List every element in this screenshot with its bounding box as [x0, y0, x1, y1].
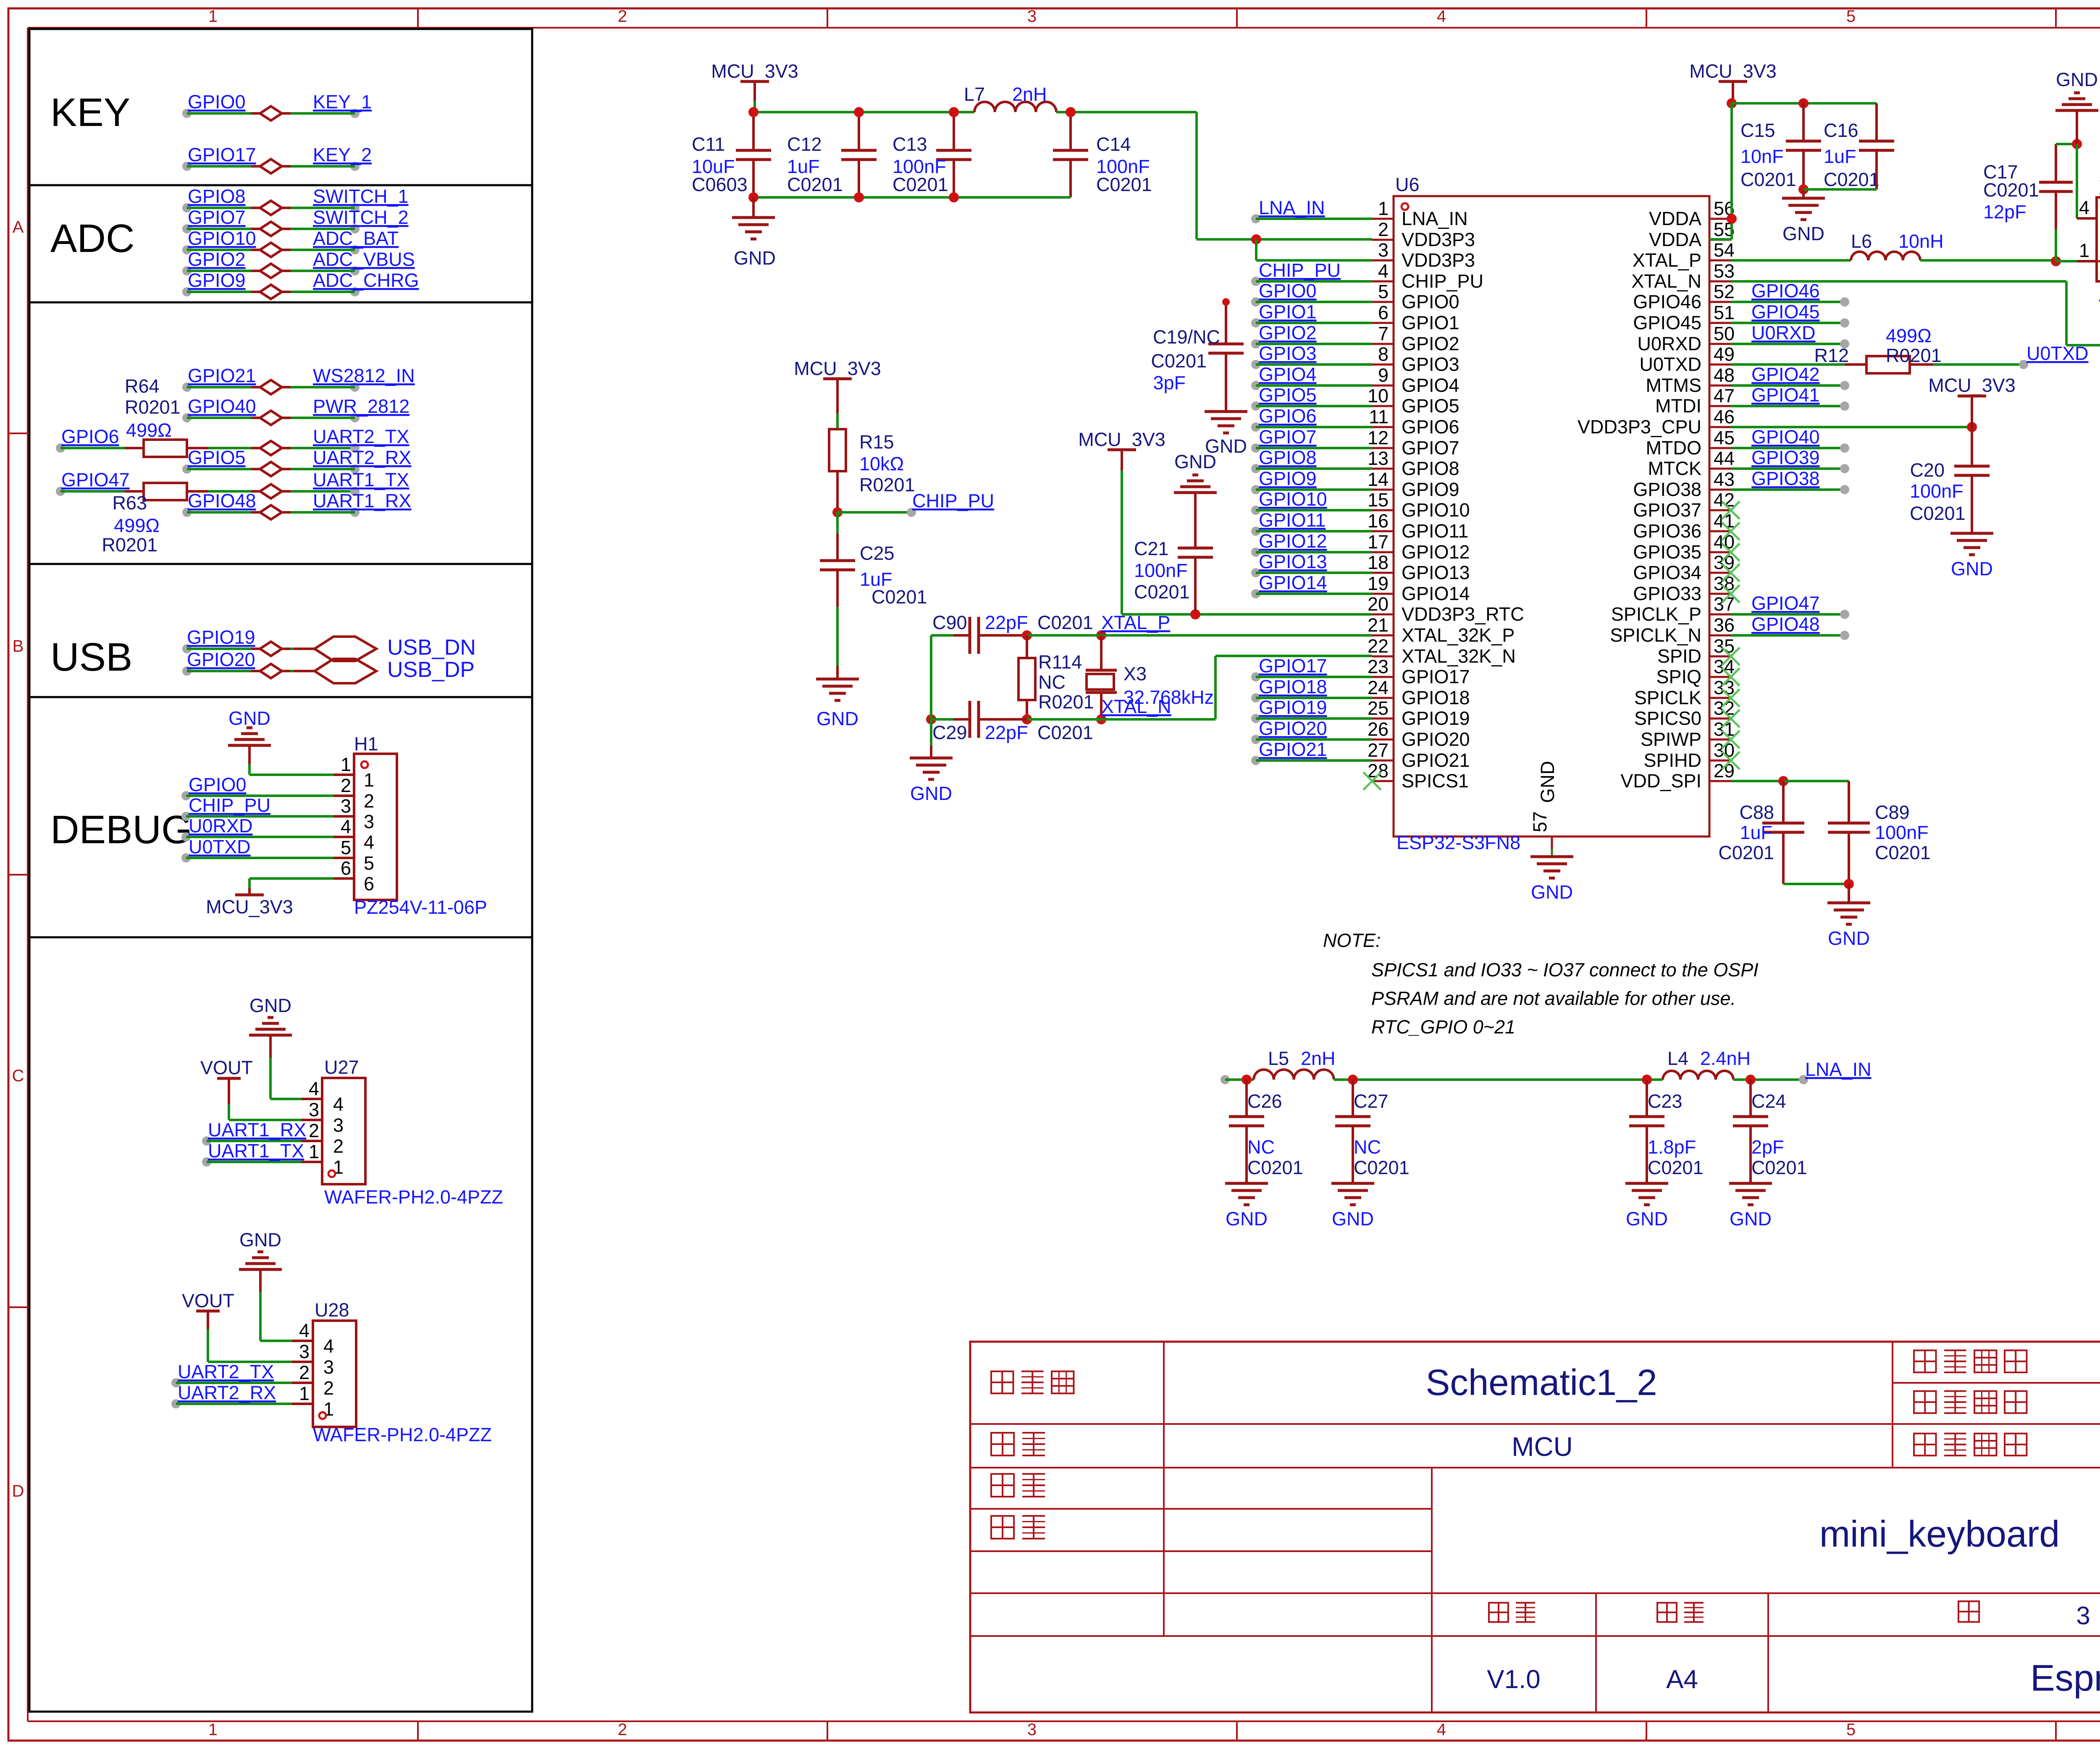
svg-text:VDD3P3: VDD3P3 — [1402, 249, 1475, 271]
svg-text:LNA_IN: LNA_IN — [1805, 1059, 1872, 1080]
svg-text:NC: NC — [1247, 1136, 1275, 1158]
svg-text:C26: C26 — [1247, 1091, 1282, 1112]
svg-text:USB_DN: USB_DN — [387, 635, 476, 660]
svg-text:10nH: 10nH — [1898, 231, 1944, 252]
svg-text:C15: C15 — [1740, 120, 1775, 141]
svg-text:MTDO: MTDO — [1646, 437, 1701, 459]
svg-text:C27: C27 — [1354, 1091, 1389, 1112]
svg-text:mini_keyboard: mini_keyboard — [1819, 1513, 2060, 1555]
svg-text:GND: GND — [228, 708, 270, 729]
svg-text:C23: C23 — [1648, 1091, 1683, 1112]
svg-text:499Ω: 499Ω — [1886, 325, 1932, 346]
svg-text:XTAL_N: XTAL_N — [1101, 696, 1171, 717]
svg-text:GND: GND — [816, 708, 858, 729]
svg-text:3: 3 — [364, 811, 374, 832]
svg-text:100nF: 100nF — [1134, 560, 1188, 581]
svg-text:MCU_3V3: MCU_3V3 — [1928, 375, 2016, 396]
svg-text:PSRAM and are not available fo: PSRAM and are not available for other us… — [1371, 988, 1736, 1009]
svg-text:GPIO17: GPIO17 — [188, 144, 256, 165]
svg-text:9: 9 — [1378, 364, 1389, 386]
svg-text:2: 2 — [341, 775, 351, 796]
svg-text:VDDA: VDDA — [1649, 229, 1701, 250]
svg-text:V1.0: V1.0 — [1487, 1665, 1541, 1694]
svg-text:R0201: R0201 — [1038, 691, 1094, 713]
svg-text:GND: GND — [249, 995, 291, 1016]
svg-text:LNA_IN: LNA_IN — [1402, 208, 1468, 229]
svg-text:GPIO39: GPIO39 — [1751, 447, 1820, 468]
svg-text:U27: U27 — [324, 1057, 359, 1078]
svg-text:1: 1 — [1378, 198, 1389, 219]
svg-text:XTAL_P: XTAL_P — [1101, 612, 1170, 633]
svg-text:4: 4 — [1437, 7, 1446, 26]
svg-text:GND: GND — [239, 1229, 281, 1251]
svg-text:1: 1 — [2079, 240, 2089, 261]
svg-text:22: 22 — [1368, 635, 1389, 657]
svg-text:GPIO20: GPIO20 — [1402, 729, 1470, 750]
svg-text:GPIO46: GPIO46 — [1633, 291, 1701, 312]
svg-text:2: 2 — [1378, 219, 1389, 240]
svg-text:C90: C90 — [932, 612, 967, 633]
svg-text:GPIO37: GPIO37 — [1633, 499, 1701, 521]
svg-text:GPIO47: GPIO47 — [61, 469, 130, 490]
svg-text:GPIO45: GPIO45 — [1633, 312, 1701, 333]
svg-text:GPIO14: GPIO14 — [1259, 572, 1327, 593]
svg-text:19: 19 — [1368, 573, 1389, 594]
svg-text:52: 52 — [1714, 281, 1735, 302]
svg-text:R0201: R0201 — [859, 474, 915, 496]
svg-text:C21: C21 — [1134, 538, 1169, 559]
svg-text:B: B — [13, 637, 24, 656]
svg-text:GPIO19: GPIO19 — [1259, 697, 1327, 718]
svg-text:GPIO34: GPIO34 — [1633, 562, 1701, 583]
svg-text:4: 4 — [341, 816, 351, 837]
svg-text:GPIO9: GPIO9 — [1259, 468, 1317, 489]
svg-text:GPIO21: GPIO21 — [1259, 739, 1327, 760]
svg-text:GND: GND — [1537, 761, 1558, 803]
svg-text:GPIO17: GPIO17 — [1402, 666, 1470, 687]
svg-text:KEY_1: KEY_1 — [313, 91, 372, 113]
svg-text:3: 3 — [1378, 239, 1389, 261]
svg-text:U28: U28 — [315, 1299, 349, 1321]
svg-text:57: 57 — [1529, 811, 1551, 832]
svg-text:1.8pF: 1.8pF — [1648, 1136, 1696, 1158]
svg-text:MTMS: MTMS — [1646, 375, 1701, 396]
svg-text:Espressif: Espressif — [2030, 1657, 2100, 1699]
svg-text:VDD_SPI: VDD_SPI — [1620, 770, 1701, 792]
svg-text:40: 40 — [1714, 531, 1735, 553]
svg-text:R0201: R0201 — [102, 534, 157, 556]
svg-text:32: 32 — [1714, 698, 1735, 719]
svg-text:GND: GND — [1531, 881, 1573, 903]
svg-text:23: 23 — [1368, 656, 1389, 677]
svg-text:51: 51 — [1714, 302, 1735, 323]
svg-text:C0201: C0201 — [892, 174, 948, 195]
svg-text:SPICLK_P: SPICLK_P — [1611, 603, 1701, 625]
svg-text:GPIO0: GPIO0 — [1402, 291, 1459, 312]
svg-text:GPIO40: GPIO40 — [1751, 426, 1820, 448]
svg-text:C0201: C0201 — [1134, 581, 1190, 603]
svg-text:WAFER-PH2.0-4PZZ: WAFER-PH2.0-4PZZ — [324, 1186, 503, 1208]
svg-text:KEY_2: KEY_2 — [313, 144, 372, 165]
svg-text:VOUT: VOUT — [200, 1057, 253, 1078]
svg-text:1: 1 — [208, 7, 218, 26]
svg-text:C0201: C0201 — [1824, 169, 1879, 190]
svg-text:38: 38 — [1714, 573, 1735, 594]
svg-text:GPIO2: GPIO2 — [188, 249, 246, 270]
svg-text:XTAL_N: XTAL_N — [1631, 270, 1701, 292]
svg-text:GPIO10: GPIO10 — [1259, 488, 1327, 510]
svg-text:GPIO45: GPIO45 — [1751, 301, 1820, 323]
svg-text:3pF: 3pF — [1153, 372, 1186, 393]
svg-text:C0201: C0201 — [1354, 1157, 1410, 1178]
svg-text:XTAL_32K_P: XTAL_32K_P — [1402, 624, 1515, 646]
svg-text:GPIO2: GPIO2 — [1259, 322, 1317, 344]
svg-text:GPIO0: GPIO0 — [189, 774, 247, 795]
svg-text:6: 6 — [1378, 302, 1389, 323]
svg-text:31: 31 — [1714, 718, 1735, 740]
svg-text:GPIO47: GPIO47 — [1751, 593, 1820, 614]
svg-text:499Ω: 499Ω — [114, 515, 160, 536]
svg-text:GPIO33: GPIO33 — [1633, 583, 1701, 604]
svg-text:MTDI: MTDI — [1655, 395, 1701, 417]
svg-text:45: 45 — [1714, 427, 1735, 448]
svg-text:R63: R63 — [112, 492, 147, 514]
svg-text:GPIO21: GPIO21 — [188, 365, 256, 386]
svg-text:53: 53 — [1714, 260, 1735, 282]
svg-text:C0201: C0201 — [1037, 612, 1093, 633]
svg-text:GPIO11: GPIO11 — [1259, 509, 1326, 531]
svg-text:U6: U6 — [1395, 174, 1420, 195]
svg-text:C19/NC: C19/NC — [1153, 326, 1220, 348]
svg-text:VDDA: VDDA — [1649, 208, 1701, 229]
svg-text:PZ254V-11-06P: PZ254V-11-06P — [354, 897, 487, 918]
svg-text:MCU_3V3: MCU_3V3 — [206, 896, 293, 918]
svg-text:GND: GND — [1226, 1208, 1268, 1230]
svg-text:GPIO1: GPIO1 — [1402, 312, 1459, 333]
svg-text:X3: X3 — [1123, 663, 1147, 684]
svg-text:DEBUG: DEBUG — [50, 808, 192, 852]
svg-text:MCU_3V3: MCU_3V3 — [1078, 429, 1165, 450]
svg-text:U0RXD: U0RXD — [1637, 333, 1701, 354]
svg-text:ADC_BAT: ADC_BAT — [313, 228, 399, 249]
svg-text:GPIO41: GPIO41 — [1751, 384, 1820, 406]
svg-text:LNA_IN: LNA_IN — [1259, 197, 1325, 218]
svg-text:MCU: MCU — [1512, 1432, 1573, 1462]
svg-text:2pF: 2pF — [1751, 1136, 1784, 1158]
svg-text:15: 15 — [1368, 489, 1389, 511]
svg-text:54: 54 — [1714, 239, 1735, 261]
svg-text:CHIP_PU: CHIP_PU — [912, 490, 994, 511]
svg-text:GPIO20: GPIO20 — [1259, 718, 1327, 739]
svg-text:1: 1 — [341, 754, 351, 775]
svg-text:C0201: C0201 — [1151, 350, 1207, 372]
svg-text:GPIO36: GPIO36 — [1633, 520, 1701, 542]
svg-text:14: 14 — [1368, 469, 1389, 490]
svg-text:5: 5 — [1378, 281, 1389, 302]
svg-text:49: 49 — [1714, 344, 1735, 365]
svg-text:100nF: 100nF — [1875, 822, 1929, 843]
svg-text:SPID: SPID — [1657, 645, 1701, 667]
svg-text:GPIO17: GPIO17 — [1259, 655, 1327, 677]
svg-text:13: 13 — [1368, 448, 1389, 469]
svg-text:100nF: 100nF — [1910, 480, 1963, 502]
svg-text:C16: C16 — [1824, 120, 1858, 141]
svg-text:GPIO40: GPIO40 — [188, 396, 256, 417]
svg-text:GPIO18: GPIO18 — [1402, 687, 1470, 708]
svg-text:GND: GND — [1626, 1208, 1668, 1230]
svg-text:18: 18 — [1368, 552, 1389, 573]
svg-text:2nH: 2nH — [1012, 84, 1047, 105]
svg-text:C29: C29 — [932, 722, 967, 743]
svg-text:C0201: C0201 — [1247, 1157, 1303, 1178]
svg-text:MCU_3V3: MCU_3V3 — [1689, 60, 1777, 82]
svg-text:GPIO4: GPIO4 — [1402, 375, 1459, 396]
svg-text:2: 2 — [309, 1120, 319, 1141]
svg-text:C12: C12 — [787, 134, 822, 155]
svg-text:MTCK: MTCK — [1648, 458, 1702, 479]
svg-text:SPIQ: SPIQ — [1656, 666, 1701, 687]
svg-text:22pF: 22pF — [985, 612, 1028, 633]
svg-text:GPIO8: GPIO8 — [1259, 447, 1317, 468]
svg-text:WAFER-PH2.0-4PZZ: WAFER-PH2.0-4PZZ — [313, 1424, 492, 1445]
svg-text:10kΩ: 10kΩ — [859, 453, 904, 475]
svg-text:3: 3 — [299, 1341, 310, 1362]
svg-text:46: 46 — [1714, 406, 1735, 427]
svg-text:C25: C25 — [860, 543, 895, 564]
svg-text:GND: GND — [910, 783, 952, 804]
svg-text:GPIO10: GPIO10 — [188, 228, 256, 249]
svg-text:VDD3P3: VDD3P3 — [1402, 229, 1475, 250]
svg-text:VOUT: VOUT — [182, 1290, 234, 1311]
svg-text:C11: C11 — [692, 134, 725, 155]
svg-text:2: 2 — [618, 1720, 627, 1739]
svg-text:2nH: 2nH — [1301, 1048, 1336, 1069]
svg-text:RTC_GPIO 0~21: RTC_GPIO 0~21 — [1371, 1016, 1515, 1038]
svg-text:C0201: C0201 — [1718, 842, 1774, 863]
svg-text:GPIO7: GPIO7 — [1259, 426, 1317, 448]
svg-text:SWITCH_2: SWITCH_2 — [313, 207, 409, 228]
svg-text:H1: H1 — [354, 733, 378, 755]
svg-text:GPIO18: GPIO18 — [1259, 676, 1327, 698]
svg-text:4: 4 — [333, 1093, 344, 1115]
svg-text:L4: L4 — [1667, 1048, 1688, 1069]
svg-text:GPIO0: GPIO0 — [188, 91, 246, 113]
svg-text:GPIO6: GPIO6 — [1402, 416, 1459, 438]
svg-text:R64: R64 — [125, 375, 160, 397]
svg-text:GPIO0: GPIO0 — [1259, 280, 1317, 302]
svg-text:VDD3P3_CPU: VDD3P3_CPU — [1578, 416, 1701, 438]
svg-text:GPIO38: GPIO38 — [1633, 479, 1701, 500]
svg-text:R15: R15 — [859, 431, 894, 453]
svg-text:26: 26 — [1368, 718, 1389, 740]
svg-text:CHIP_PU: CHIP_PU — [189, 795, 270, 816]
svg-text:C0201: C0201 — [1037, 722, 1093, 743]
svg-text:4: 4 — [1437, 1720, 1446, 1739]
svg-text:3: 3 — [333, 1114, 344, 1136]
svg-text:U0RXD: U0RXD — [189, 815, 253, 836]
svg-text:GPIO38: GPIO38 — [1751, 468, 1820, 489]
svg-text:6: 6 — [364, 873, 374, 894]
svg-text:GPIO6: GPIO6 — [1259, 405, 1317, 427]
svg-text:1uF: 1uF — [1740, 822, 1772, 843]
svg-text:GND: GND — [1205, 435, 1247, 457]
svg-text:UART2_TX: UART2_TX — [313, 426, 409, 447]
svg-text:12: 12 — [1368, 427, 1389, 448]
svg-text:3: 3 — [2076, 1602, 2090, 1630]
svg-text:GPIO35: GPIO35 — [1633, 541, 1701, 563]
svg-text:C89: C89 — [1875, 802, 1910, 823]
svg-text:36: 36 — [1714, 614, 1735, 636]
svg-text:C88: C88 — [1739, 802, 1774, 823]
svg-text:GPIO1: GPIO1 — [1259, 301, 1317, 323]
svg-text:C20: C20 — [1910, 459, 1945, 481]
svg-text:3: 3 — [1027, 7, 1037, 26]
svg-text:SPICLK_N: SPICLK_N — [1610, 624, 1701, 646]
svg-text:C0201: C0201 — [1875, 842, 1931, 863]
svg-text:L7: L7 — [964, 84, 985, 105]
svg-text:CHIP_PU: CHIP_PU — [1402, 270, 1483, 292]
svg-text:41: 41 — [1714, 510, 1735, 532]
svg-text:43: 43 — [1714, 469, 1735, 490]
svg-text:37: 37 — [1714, 593, 1735, 615]
svg-text:GPIO14: GPIO14 — [1402, 583, 1470, 604]
svg-text:NC: NC — [1354, 1136, 1381, 1158]
svg-text:2: 2 — [299, 1362, 310, 1383]
svg-text:GPIO8: GPIO8 — [1402, 458, 1459, 479]
svg-text:C0201: C0201 — [1983, 179, 2039, 201]
svg-text:C14: C14 — [1096, 134, 1131, 155]
svg-text:GPIO12: GPIO12 — [1259, 530, 1327, 552]
svg-text:XTAL_32K_N: XTAL_32K_N — [1402, 645, 1516, 667]
svg-text:MCU_3V3: MCU_3V3 — [711, 60, 798, 82]
svg-text:5: 5 — [1846, 1720, 1856, 1739]
svg-text:2: 2 — [364, 790, 374, 812]
svg-text:C0201: C0201 — [1096, 174, 1152, 195]
svg-text:GPIO19: GPIO19 — [1402, 708, 1470, 729]
svg-text:GPIO3: GPIO3 — [1259, 343, 1317, 364]
svg-text:7: 7 — [1378, 323, 1389, 344]
svg-text:C0603: C0603 — [692, 174, 748, 195]
svg-text:U0TXD: U0TXD — [2026, 343, 2089, 364]
svg-text:3: 3 — [309, 1099, 319, 1120]
svg-text:R114: R114 — [1038, 651, 1082, 673]
svg-text:D: D — [12, 1482, 24, 1500]
svg-text:SWITCH_1: SWITCH_1 — [313, 186, 409, 207]
svg-text:SPICS1: SPICS1 — [1402, 770, 1469, 792]
svg-text:44: 44 — [1714, 448, 1735, 469]
svg-text:33: 33 — [1714, 677, 1735, 698]
svg-text:C0201: C0201 — [871, 586, 927, 608]
svg-text:R0201: R0201 — [1886, 345, 1942, 366]
svg-text:1uF: 1uF — [1824, 146, 1856, 167]
svg-text:30: 30 — [1714, 739, 1735, 761]
svg-text:5: 5 — [1846, 7, 1856, 26]
svg-text:UART2_RX: UART2_RX — [178, 1382, 276, 1403]
svg-text:GND: GND — [1782, 223, 1824, 244]
svg-text:2: 2 — [323, 1377, 334, 1399]
svg-text:GPIO20: GPIO20 — [187, 649, 255, 670]
svg-text:USB_DP: USB_DP — [387, 658, 475, 682]
svg-text:GPIO5: GPIO5 — [1259, 384, 1317, 406]
svg-text:48: 48 — [1714, 364, 1735, 386]
svg-text:2.4nH: 2.4nH — [1700, 1048, 1751, 1069]
svg-text:Schematic1_2: Schematic1_2 — [1425, 1362, 1657, 1403]
svg-text:SPICS0: SPICS0 — [1634, 708, 1701, 729]
svg-text:20: 20 — [1368, 593, 1389, 615]
svg-text:1: 1 — [299, 1383, 310, 1404]
svg-text:5: 5 — [341, 837, 351, 858]
svg-text:XTAL_P: XTAL_P — [1633, 249, 1701, 271]
svg-text:29: 29 — [1714, 760, 1735, 781]
svg-text:10nF: 10nF — [1740, 146, 1784, 167]
svg-text:A: A — [13, 218, 24, 236]
svg-text:C0201: C0201 — [1910, 503, 1966, 524]
svg-text:R0201: R0201 — [125, 396, 181, 418]
svg-text:34: 34 — [1714, 656, 1735, 677]
svg-text:ADC_CHRG: ADC_CHRG — [313, 270, 419, 291]
svg-text:25: 25 — [1368, 698, 1389, 719]
svg-text:UART2_RX: UART2_RX — [313, 447, 411, 468]
svg-text:GPIO10: GPIO10 — [1402, 499, 1470, 521]
svg-text:GPIO5: GPIO5 — [188, 447, 246, 468]
svg-text:GPIO13: GPIO13 — [1402, 562, 1470, 583]
svg-text:SPICS1 and IO33 ~ IO37 connect: SPICS1 and IO33 ~ IO37 connect to the OS… — [1371, 959, 1759, 981]
svg-text:WS2812_IN: WS2812_IN — [313, 365, 415, 386]
svg-text:UART1_RX: UART1_RX — [313, 490, 411, 511]
svg-text:47: 47 — [1714, 385, 1735, 406]
svg-text:50: 50 — [1714, 323, 1735, 344]
svg-text:GPIO19: GPIO19 — [187, 627, 255, 648]
svg-text:GPIO46: GPIO46 — [1751, 280, 1820, 302]
svg-text:GND: GND — [1951, 558, 1993, 580]
svg-text:C0201: C0201 — [1751, 1157, 1807, 1178]
svg-text:4: 4 — [2079, 197, 2089, 218]
svg-text:GPIO4: GPIO4 — [1259, 364, 1317, 385]
svg-text:UART1_TX: UART1_TX — [208, 1140, 304, 1162]
svg-text:4: 4 — [364, 831, 374, 853]
svg-text:3: 3 — [341, 795, 351, 817]
svg-text:A4: A4 — [1666, 1665, 1698, 1694]
svg-text:GPIO2: GPIO2 — [1402, 333, 1459, 354]
svg-text:GND: GND — [2056, 69, 2098, 90]
svg-text:GPIO13: GPIO13 — [1259, 551, 1327, 572]
svg-text:VDD3P3_RTC: VDD3P3_RTC — [1402, 603, 1524, 625]
svg-text:42: 42 — [1714, 489, 1735, 511]
svg-text:22pF: 22pF — [985, 722, 1028, 743]
svg-text:L6: L6 — [1851, 231, 1872, 252]
svg-text:4: 4 — [323, 1335, 334, 1357]
svg-text:27: 27 — [1368, 739, 1389, 761]
svg-text:GPIO9: GPIO9 — [1402, 479, 1459, 500]
svg-text:PWR_2812: PWR_2812 — [313, 396, 409, 417]
svg-text:C: C — [12, 1067, 24, 1085]
svg-text:6: 6 — [341, 857, 351, 879]
svg-text:24: 24 — [1368, 677, 1389, 698]
svg-text:1: 1 — [208, 1720, 218, 1739]
svg-text:GPIO21: GPIO21 — [1402, 750, 1470, 771]
svg-text:39: 39 — [1714, 552, 1735, 573]
svg-text:UART1_TX: UART1_TX — [313, 469, 409, 490]
svg-text:SPIHD: SPIHD — [1643, 750, 1701, 771]
svg-text:21: 21 — [1368, 614, 1389, 636]
svg-text:SPICLK: SPICLK — [1634, 687, 1701, 708]
svg-text:499Ω: 499Ω — [126, 420, 172, 441]
svg-text:GPIO48: GPIO48 — [188, 490, 256, 511]
svg-text:NOTE:: NOTE: — [1323, 930, 1381, 951]
svg-text:10: 10 — [1368, 385, 1389, 406]
svg-text:R12: R12 — [1814, 345, 1849, 366]
svg-text:NC: NC — [1038, 671, 1066, 693]
